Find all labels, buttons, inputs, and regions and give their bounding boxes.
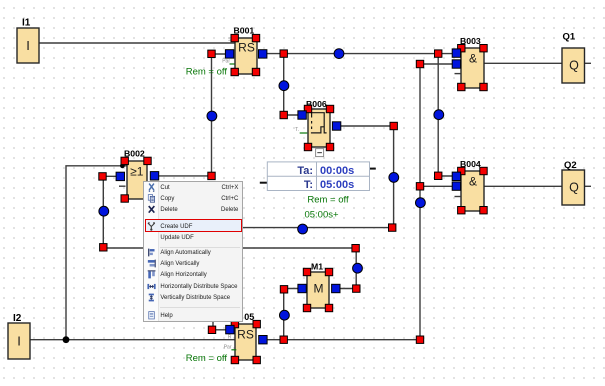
svg-text:M1: M1 [311, 262, 323, 272]
label B006 [306, 99, 327, 109]
label I2 [13, 313, 22, 324]
midpoint circle on M1 input riser [280, 310, 290, 320]
svg-text:Q2: Q2 [564, 160, 577, 171]
label B004 [460, 159, 481, 169]
svg-text:T.: T. [295, 127, 299, 133]
parameter box of B006 [267, 162, 369, 191]
label M1 [311, 262, 323, 272]
wire handle at B006 net lower corner [389, 224, 396, 231]
pin square B006 output [332, 122, 340, 130]
pin square B001 R input [225, 50, 233, 58]
svg-text:05:00s+: 05:00s+ [304, 210, 339, 221]
unused input stub of B003 [455, 73, 461, 75]
pin label R of B005 [228, 335, 232, 341]
pin square B005 S input [226, 325, 234, 333]
wire handle at B006 output corner [390, 122, 397, 129]
wire handle at M1 input corner [280, 286, 287, 293]
wire Q2 output stub [585, 185, 592, 187]
timer block B006 [308, 109, 330, 147]
svg-text:≥1: ≥1 [130, 165, 144, 179]
wire B001 output to B003 input 1 [266, 53, 453, 55]
unused input stub of B004 [455, 196, 461, 198]
menu item Create UDF [147, 222, 157, 231]
midpoint circle on M1 output riser [353, 263, 363, 273]
output block Q2 [562, 170, 585, 205]
wire branch to M1 input [284, 289, 298, 340]
midpoint circle on B004 input 1 branch [434, 110, 444, 120]
label Q2 [564, 160, 577, 171]
wire handle at B002 output corner [208, 172, 215, 179]
corner handles of B001 [231, 34, 260, 75]
pin square B003 input 1 [452, 49, 460, 57]
label B005 [244, 312, 254, 322]
menu item Cut [147, 183, 157, 192]
label Q1 [563, 32, 576, 43]
wire handle at B006 input corner [280, 111, 287, 118]
input block I2 [8, 323, 30, 359]
pin square M1 output [332, 284, 340, 292]
junction dot at B002 input 1 [120, 163, 125, 168]
wire handle at B004 input 1 corner [435, 172, 442, 179]
svg-text:I2: I2 [13, 313, 22, 324]
menu item Copy [147, 194, 157, 203]
wire B004 output to Q2 [484, 185, 562, 187]
svg-text:Rem = off: Rem = off [307, 195, 349, 206]
label B003 [460, 36, 481, 46]
pin square B002 input 2 [116, 172, 124, 180]
RS flip-flop B001 [235, 38, 257, 74]
wire handle at M1 output corner [353, 285, 360, 292]
wire handle at B006 input branch on node y53 [280, 50, 287, 57]
wire I1 to B001 S input [39, 42, 235, 44]
output block Q1 [562, 48, 585, 83]
label I1 [22, 18, 31, 29]
svg-text:Q1: Q1 [563, 32, 576, 43]
midpoint circle on B006 input branch [279, 81, 289, 91]
value label 05:00s+ for B006 [304, 210, 339, 221]
svg-text:05:00s: 05:00s [320, 179, 354, 191]
junction dot on I2 wire [63, 336, 70, 343]
wire B005 output to B003 input 2 and B004 input 2 [267, 64, 453, 340]
midpoint circle on B001 R input riser [207, 111, 217, 121]
wire I2 to B005 R input [30, 339, 235, 341]
svg-text:&: & [469, 52, 477, 66]
marker block M1 [307, 272, 329, 308]
menu item Align Automatically [147, 248, 157, 257]
svg-text:Par: Par [222, 59, 230, 65]
pin label S of B001 [228, 37, 232, 43]
svg-text:&: & [469, 175, 477, 189]
corner handles of B002 [121, 157, 151, 202]
label B002 [124, 149, 145, 159]
midpoint circle on B005 S input wire [298, 224, 308, 234]
wire stub right of parameter box [369, 168, 376, 170]
menu item Vertically Distribute Space [147, 293, 157, 302]
menu item Delete [147, 205, 157, 214]
wire B002 output to B001 R input [159, 54, 226, 176]
corner handles of B006 [304, 105, 333, 150]
midpoint circle on B001 output wire [334, 49, 344, 59]
wire M1 output to B002 input 2 [103, 176, 356, 288]
menu item Update UDF [160, 233, 193, 243]
pin square B003 input 2 [452, 60, 460, 68]
wire I2 branch to B002 input 1 [66, 166, 127, 340]
wire branch to B004 input 1 [438, 54, 452, 176]
wire handle at B005 S input corner [208, 326, 215, 333]
wire stub left of parameter box [260, 182, 268, 184]
pin label Par of B005 [224, 345, 237, 351]
corner handles of B005 [231, 320, 260, 363]
wire B006 output to B005 S input [213, 126, 394, 330]
corner handles of M1 [303, 268, 332, 311]
input block I1 [17, 28, 39, 63]
svg-text:T:: T: [304, 179, 313, 191]
midpoint circle on B005 output riser [416, 198, 426, 208]
svg-text:M: M [314, 282, 324, 296]
svg-text:RS: RS [238, 41, 255, 55]
svg-text:I: I [17, 334, 21, 349]
pin square B004 input 2 [452, 182, 460, 190]
svg-text:Ta:: Ta: [297, 165, 313, 177]
pin square B004 input 1 [452, 172, 460, 180]
wire handle at M1 input branch junction [280, 336, 287, 343]
menu item Align Vertically [147, 259, 157, 268]
RS flip-flop B005 [235, 324, 256, 360]
wire handle at B002 input 2 corner [99, 173, 106, 180]
pin square M1 input [298, 284, 306, 292]
midpoint circle on B002 input 2 riser [99, 206, 109, 216]
pin square B002 output [150, 172, 158, 180]
pin label Par of B001 [222, 59, 234, 65]
svg-text:Q: Q [569, 181, 579, 195]
label B001 [234, 26, 255, 36]
svg-text:Par: Par [224, 345, 232, 351]
collapse toggle of B006 parameter box [316, 149, 324, 157]
unused input stub of B002 [119, 185, 126, 187]
svg-text:Rem = off: Rem = off [186, 67, 228, 78]
midpoint circle on B006 output riser [389, 173, 399, 183]
svg-text:00:00s: 00:00s [320, 165, 354, 177]
value label Rem = off for B006 [307, 195, 349, 206]
OR gate B002 [127, 161, 147, 199]
svg-text:RS: RS [237, 328, 254, 342]
wire handle at B004 input 2 branch [416, 183, 423, 190]
menu item Help [147, 311, 157, 320]
svg-text:Rem = off: Rem = off [186, 353, 228, 364]
pin label T of B006 [295, 127, 307, 133]
svg-text:Q: Q [569, 59, 579, 73]
pin square B006 input [298, 111, 306, 119]
highlight box around Create UDF [145, 219, 242, 232]
wire handle at B005 output net corner [416, 336, 423, 343]
wire handle at B003 input 2 corner [416, 60, 423, 67]
value label Rem = off for B005 [186, 353, 228, 364]
wire handle at B001 R corner top [208, 50, 215, 57]
wire branch to B006 input [284, 54, 299, 115]
context menu [143, 181, 243, 322]
corner handles of B003 [458, 45, 488, 91]
svg-text:I: I [26, 38, 30, 53]
AND gate B004 [461, 171, 484, 211]
wire handle at M1 output net upper corner [352, 245, 359, 252]
menu item Horizontally Distribute Space [147, 282, 157, 291]
wire B003 output to Q1 [484, 62, 562, 64]
svg-text:I1: I1 [22, 18, 31, 29]
value label Rem = off for B001 [186, 67, 228, 78]
corner handles of B004 [458, 167, 488, 214]
pin square B001 output [259, 50, 267, 58]
svg-text:R: R [228, 335, 232, 341]
pin square B005 output [259, 336, 267, 344]
AND gate B003 [461, 48, 484, 88]
wire Q1 output stub [584, 62, 591, 64]
wire handle at B004 branch on node y53 [435, 50, 442, 57]
wire handle at B002 input 2 net lower corner [100, 244, 107, 251]
menu item Align Horizontally [147, 270, 157, 279]
